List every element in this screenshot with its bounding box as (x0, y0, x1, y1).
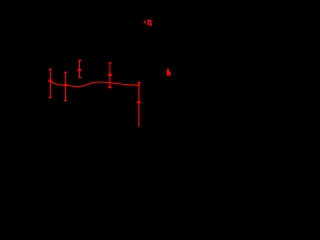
legend label Q (148, 20, 153, 26)
error bar point 4 (108, 63, 111, 87)
error bar 4 bottom cap blob (109, 86, 112, 88)
curve (red fit line through data) (50, 81, 138, 87)
error bar point 5 (no bottom cap) (138, 82, 141, 127)
marker 4 (triangle) (107, 72, 112, 76)
marker 2 (triangle) (63, 83, 68, 86)
marker 1 (triangle) (48, 78, 53, 82)
marker 5 (triangle) (136, 100, 141, 103)
error bar point 2 (64, 72, 67, 100)
curve/bar junction blob point 5 (138, 84, 140, 86)
error bar point 3 (78, 60, 81, 77)
marker 3 (triangle) (77, 68, 82, 71)
red label glyph L at right (167, 69, 171, 76)
legend marker (triangle) (143, 20, 146, 23)
error bar point 1 (49, 69, 52, 97)
